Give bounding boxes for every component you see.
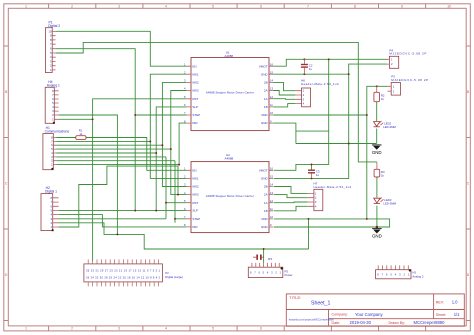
junction at (175,218.8): [174, 218, 176, 220]
wire MS2 bus U1-U2: [162, 82, 186, 186]
svg-text:MS2: MS2: [192, 81, 199, 85]
svg-text:1B: 1B: [264, 105, 268, 109]
junction at (166,202.7): [165, 202, 167, 204]
svg-text:2: 2: [71, 4, 73, 8]
header H7 1x4: [308, 182, 352, 211]
header H5 Digital (Large): [84, 259, 183, 286]
wire VMOT drop to U2 VMOT: [274, 59, 329, 170]
svg-text:MS3: MS3: [192, 193, 199, 197]
svg-text:3: 3: [118, 4, 120, 8]
connector P3: [388, 75, 429, 96]
svg-text:GND: GND: [261, 225, 269, 229]
svg-text:1: 1: [25, 4, 27, 8]
svg-text:SLP: SLP: [192, 105, 198, 109]
svg-text:12: 12: [270, 199, 273, 203]
wire H2.4 to U2 DIR: [59, 215, 187, 227]
junction at (117.4,234.4): [116, 233, 118, 235]
svg-text:LED-3MM: LED-3MM: [383, 125, 396, 129]
svg-text:14: 14: [270, 183, 273, 187]
svg-text:Drawn By:: Drawn By:: [389, 321, 406, 325]
svg-text:VDD: VDD: [261, 113, 268, 117]
svg-text:SLP: SLP: [192, 209, 198, 213]
svg-text:10: 10: [447, 4, 451, 8]
svg-text:1A: 1A: [264, 97, 268, 101]
ground under LED2: [372, 145, 382, 155]
svg-text:GND: GND: [261, 121, 269, 125]
svg-text:6: 6: [260, 4, 262, 8]
junction at (92.6,119.3): [92, 118, 94, 120]
junction at (376.7,86.3): [376, 85, 378, 87]
wire U1 GND9 up to GND row: [273, 123, 377, 143]
left ruler ticks: [4, 46, 9, 321]
wire R1 to U2 EN: [86, 138, 187, 171]
wire LED2 to GND: [376, 129, 378, 144]
wire H2.5 to U2 SLP: [59, 210, 187, 212]
wire H4.2 to VDD row: [59, 115, 118, 234]
wire comms p4: [56, 152, 156, 154]
svg-text:3: 3: [118, 327, 120, 331]
svg-text:2: 2: [71, 327, 73, 331]
svg-text:Digital 2: Digital 2: [48, 24, 60, 28]
svg-text:LED-3MM: LED-3MM: [383, 202, 396, 206]
wire comms p8 to R1: [56, 137, 76, 139]
svg-text:16: 16: [270, 167, 273, 171]
wire H2.2 to STEP row: [59, 223, 309, 249]
wire RST net vertical to large header: [93, 99, 187, 261]
wire MS3 bus U1-U2: [171, 91, 187, 195]
svg-text:2B: 2B: [264, 81, 268, 85]
resistor R2: [374, 86, 385, 101]
junction at (348.7,74.2): [348, 73, 350, 75]
wire H2.3 to STEP bus: [59, 218, 166, 220]
svg-text:JP1: JP1: [268, 257, 273, 261]
svg-text:GND: GND: [372, 150, 382, 155]
wire GND9 hook row: [296, 130, 329, 132]
wire comms p3: [56, 156, 166, 158]
junction at (376.9,227): [376, 226, 379, 229]
wire U1 2B to H6.1: [273, 82, 295, 90]
wire MS1 bus U1-U2: [150, 74, 186, 178]
svg-text:Sheet_1: Sheet_1: [311, 300, 330, 306]
wire U1 1B to H6.4: [273, 104, 295, 107]
svg-text:2B: 2B: [264, 185, 268, 189]
wire U2 2A to H7.2: [274, 195, 308, 198]
svg-text:1.0: 1.0: [452, 300, 458, 305]
wire VDD drop to JP1 row: [308, 219, 310, 249]
svg-text:REV:: REV:: [436, 300, 444, 304]
wire RST bus to U2: [166, 157, 187, 219]
svg-text:13: 13: [270, 191, 273, 195]
wire P1.6 to U1 STEP: [56, 49, 187, 211]
svg-text:6: 6: [260, 327, 262, 331]
wire P1.10 to U1 EN: [56, 31, 187, 66]
svg-text:A4988 Stepper Motor Driver Car: A4988 Stepper Motor Driver Carrier: [206, 91, 254, 95]
svg-text:15: 15: [270, 175, 273, 179]
svg-text:10: 10: [270, 215, 273, 219]
wire comms p2: [56, 160, 175, 162]
svg-text:TITLE:: TITLE:: [289, 295, 301, 300]
header H6 1x4: [295, 78, 339, 106]
svg-text:5: 5: [212, 327, 214, 331]
header H3 Analog 2: [376, 265, 424, 278]
svg-text:Analog 2: Analog 2: [412, 275, 423, 279]
svg-text:9: 9: [401, 4, 403, 8]
wire P3.1 VDD net: [367, 86, 388, 219]
svg-text:1B: 1B: [264, 209, 268, 213]
svg-text:12: 12: [270, 95, 273, 99]
wire P1.5 to R3 top (long top run): [56, 42, 377, 161]
junction at (162.4,145.2): [161, 144, 163, 146]
svg-text:Your Company: Your Company: [355, 312, 383, 317]
svg-text:Header-Male-2.54_1x4: Header-Male-2.54_1x4: [301, 82, 339, 86]
wire LED3 to GND dot: [376, 206, 378, 227]
svg-text:14: 14: [270, 79, 273, 83]
svg-text:MS3: MS3: [192, 89, 199, 93]
wire comms p5: [56, 148, 171, 150]
wire U2 2B to H7.1: [274, 187, 308, 194]
wire U1 VMOT to P4.1: [273, 59, 386, 66]
junction at (366.8,218.9): [366, 218, 368, 220]
op-amp U1 A4988 IC: [184, 51, 273, 131]
svg-text:Power: Power: [285, 273, 293, 277]
svg-text:8 7 6 5 4 3 2 1: 8 7 6 5 4 3 2 1: [250, 271, 282, 275]
junction at (348.7,143.5): [348, 143, 350, 145]
svg-text:DIR: DIR: [192, 225, 198, 229]
svg-text:A4988: A4988: [224, 54, 233, 58]
resistor R1: [76, 129, 86, 140]
svg-text:EN: EN: [192, 168, 196, 172]
title block: [286, 294, 464, 326]
svg-text:VDD: VDD: [261, 217, 268, 221]
svg-text:Company:: Company:: [332, 313, 348, 317]
svg-text:Communications: Communications: [45, 130, 70, 134]
svg-text:7: 7: [307, 4, 309, 8]
svg-text:5: 5: [212, 4, 214, 8]
svg-text:Header-Male-2.54_1x4: Header-Male-2.54_1x4: [314, 185, 352, 189]
svg-text:STEP: STEP: [192, 217, 200, 221]
svg-text:10: 10: [49, 29, 52, 33]
svg-text:2019-04-30: 2019-04-30: [350, 320, 372, 325]
wire H4.1 to RST net: [59, 118, 93, 120]
header H1 Communications: [43, 126, 70, 170]
junction at (304.4,59.3): [303, 58, 305, 60]
svg-text:EN: EN: [192, 64, 196, 68]
junction at (135.2,115): [134, 114, 136, 116]
wire U2 1A to H7.3: [274, 201, 308, 204]
capacitor C3: [308, 169, 320, 178]
svg-text:1u: 1u: [309, 67, 313, 71]
svg-text:1: 1: [25, 327, 27, 331]
wire U2 GND9 row: [274, 226, 377, 228]
op-amp U2 A4988 IC: [184, 153, 273, 232]
wire U1 VDD row: [273, 114, 367, 116]
wire STEP bus to U2: [175, 161, 187, 223]
junction at (156.2,210.6): [155, 210, 157, 212]
wire H2.1 elbow to MS3 row: [59, 166, 178, 227]
svg-text:STEP: STEP: [192, 113, 200, 117]
ground under LED3: [372, 229, 382, 239]
svg-text:13: 13: [270, 87, 273, 91]
svg-text:Digital 1: Digital 1: [45, 190, 57, 194]
svg-text:Date:: Date:: [332, 321, 341, 325]
wire P4.2 to U2 GND15: [274, 64, 387, 178]
svg-text:VMOT: VMOT: [259, 168, 268, 172]
svg-text:36 34 32 30 28 26 24 22 20 18: 36 34 32 30 28 26 24 22 20 18 16 14 12 1…: [86, 275, 161, 279]
svg-text:B: B: [5, 90, 7, 94]
svg-text:8: 8: [354, 4, 356, 8]
svg-text:easyeda.com/projects/MCCreeper: easyeda.com/projects/MCCreeper8890: [289, 317, 335, 321]
jumper JP1: [253, 255, 273, 262]
svg-text:4: 4: [165, 4, 167, 8]
header P1 Digital 2: [45, 20, 60, 72]
header H4 Analog 1: [45, 80, 60, 124]
svg-text:VMOT: VMOT: [259, 64, 268, 68]
capacitor C2: [301, 59, 313, 74]
svg-text:MS2: MS2: [192, 185, 199, 189]
svg-text:B: B: [467, 90, 469, 94]
wire U1 2A to H6.2: [273, 91, 295, 96]
wire comms p1: [56, 164, 179, 166]
svg-text:RST: RST: [192, 201, 198, 205]
svg-text:GND: GND: [261, 177, 269, 181]
junction at (170.8,149.1): [170, 148, 172, 150]
svg-text:A4988 Stepper Motor Driver Car: A4988 Stepper Motor Driver Carrier: [206, 194, 254, 198]
svg-text:MCCreeper8890: MCCreeper8890: [414, 320, 446, 325]
svg-text:MS1: MS1: [192, 72, 199, 76]
svg-text:GND: GND: [261, 72, 269, 76]
wire U1 DIR drop: [179, 123, 187, 165]
bottom ruler ticks: [49, 326, 426, 331]
wire comms p6: [56, 144, 162, 146]
svg-text:1/1: 1/1: [454, 312, 460, 317]
wire R3 bottom to LED3: [376, 177, 378, 198]
svg-text:1A: 1A: [264, 201, 268, 205]
junction at (366.8,115): [366, 114, 368, 116]
junction at (135.2,210.6): [134, 210, 136, 212]
top ruler ticks: [49, 4, 426, 9]
junction at (263.6,249): [263, 248, 265, 250]
svg-text:MJ2EDGVC-5.08 2P: MJ2EDGVC-5.08 2P: [389, 52, 426, 56]
svg-text:Sheet:: Sheet:: [436, 313, 446, 317]
wire SLP bus U1-U2: [156, 107, 187, 211]
wire U2 VDD row with hook: [274, 219, 390, 227]
svg-text:35 33 31 29 27 25 23 21 19 17: 35 33 31 29 27 25 23 21 19 17 15 13 11 9…: [86, 268, 161, 272]
svg-text:A4988: A4988: [225, 157, 234, 161]
junction at (311.5,164.4): [311, 163, 313, 165]
resistor R3: [374, 162, 385, 178]
wire U1 GND row: [273, 73, 349, 75]
wire U2 1B to H7.4: [274, 206, 308, 211]
svg-text:1u: 1u: [316, 173, 320, 177]
junction at (308.5,218.9): [308, 218, 310, 220]
svg-text:2A: 2A: [264, 193, 268, 197]
junction at (304.4,74.2): [303, 73, 305, 75]
LED LED2: [374, 121, 397, 129]
svg-text:4: 4: [165, 327, 167, 331]
junction at (311.5,178.4): [311, 177, 313, 179]
junction at (179.1,164.6): [178, 164, 180, 166]
junction at (156.2,153): [155, 152, 157, 154]
svg-text:Digital (Large): Digital (Large): [165, 275, 183, 279]
svg-text:MS1: MS1: [192, 177, 199, 181]
wire R2 bottom to LED2: [376, 102, 378, 121]
svg-text:MJ2EDGVC-5.08 2P: MJ2EDGVC-5.08 2P: [391, 78, 428, 82]
svg-text:DIR: DIR: [192, 121, 198, 125]
junction at (150.3,141.4): [149, 140, 151, 142]
junction at (328.7,59.3): [328, 58, 330, 60]
junction at (178,194.6): [177, 194, 179, 196]
header P5 Power: [248, 263, 292, 278]
wire JP1 drop to power header: [263, 249, 265, 263]
LED LED3: [374, 198, 397, 206]
wire comms p7: [56, 140, 150, 142]
svg-text:Analog 1: Analog 1: [47, 83, 60, 87]
wire C3 tap: [311, 164, 313, 169]
svg-text:15: 15: [270, 70, 273, 74]
svg-text:RST: RST: [192, 97, 198, 101]
wire U1 1A to H6.3: [273, 98, 295, 101]
svg-text:GND: GND: [372, 233, 382, 238]
svg-text:2A: 2A: [264, 89, 268, 93]
connector P4: [387, 48, 427, 68]
right ruler ticks: [466, 46, 470, 321]
header H2 Digital 1: [41, 186, 59, 231]
svg-text:10: 10: [270, 111, 273, 115]
svg-text:16: 16: [270, 62, 273, 66]
